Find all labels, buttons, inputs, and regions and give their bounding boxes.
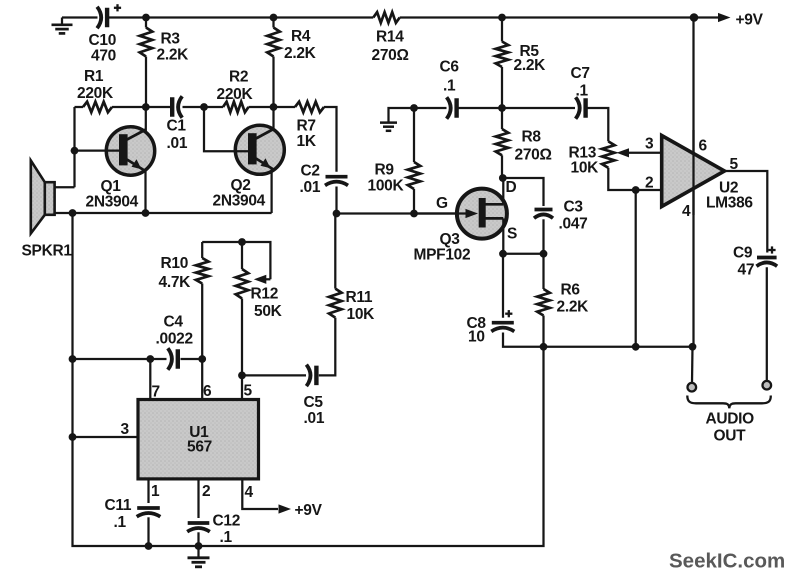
- label R6 2.2K: [557, 282, 590, 316]
- capacitor C2: [325, 177, 348, 186]
- wire U2 pin6/pin4 crossing segment: [692, 130, 694, 215]
- node drain junction D: [499, 174, 507, 182]
- resistor R11: [329, 289, 342, 318]
- node mid rail riser junction: [540, 343, 548, 351]
- node Q2 collector junction: [270, 103, 278, 111]
- label pin 5b: [244, 383, 253, 400]
- svg-text:C1: C1: [167, 118, 187, 135]
- svg-text:R9: R9: [375, 162, 395, 179]
- watermark SeekIC.com: [669, 550, 785, 573]
- label D: [506, 179, 517, 196]
- svg-text:2N3904: 2N3904: [213, 193, 266, 210]
- label R8 270ohm: [515, 129, 552, 164]
- speaker SPKR1: [31, 161, 55, 234]
- svg-text:S: S: [507, 226, 517, 243]
- label C5 .01: [304, 394, 325, 427]
- svg-text:+9V: +9V: [295, 502, 323, 519]
- label Q2 2N3904: [213, 177, 266, 210]
- capacitor C5: [306, 365, 316, 387]
- svg-text:220K: 220K: [77, 85, 114, 102]
- transistor Q2: [235, 125, 284, 174]
- wire R9 top lead: [413, 108, 415, 162]
- wire C9 bottom lead: [766, 267, 768, 381]
- wire C6 left lead: [414, 107, 447, 109]
- wire C5 left lead: [242, 374, 306, 376]
- svg-text:.1: .1: [576, 83, 589, 100]
- node pin2 drop junction: [632, 343, 640, 351]
- wire C4 right segment: [181, 358, 203, 360]
- svg-text:.0022: .0022: [156, 331, 193, 348]
- wire emitter rail / speaker bottom: [55, 212, 272, 214]
- label SPKR1: [22, 243, 73, 260]
- wire pin6 stub: [201, 359, 203, 400]
- svg-text:C7: C7: [571, 65, 590, 82]
- label R13 10K: [569, 145, 600, 177]
- transistor Q3: [457, 189, 507, 239]
- label C8 10: [467, 315, 487, 346]
- node R12 top junction: [238, 238, 246, 246]
- wire R4 bottom lead to Q2 collector node: [272, 57, 274, 108]
- svg-text:3: 3: [121, 421, 130, 438]
- svg-text:OUT: OUT: [714, 428, 747, 445]
- capacitor C12: [187, 523, 210, 532]
- label pin 3: [645, 136, 654, 153]
- label C12 .1: [213, 513, 241, 547]
- wire U2 output: [725, 171, 768, 253]
- wire ground return left/bottom/riser: [73, 213, 544, 546]
- svg-text:R6: R6: [561, 282, 581, 299]
- svg-text:C2: C2: [301, 163, 320, 180]
- svg-text:C12: C12: [213, 513, 241, 530]
- node C3 bottom junction: [540, 250, 548, 258]
- node pin6 line bottom junction: [689, 343, 697, 351]
- power +9V arrow bottom: [279, 504, 292, 513]
- transistor Q1: [106, 127, 154, 175]
- svg-text:10K: 10K: [571, 160, 600, 177]
- svg-text:Q3: Q3: [440, 231, 461, 248]
- svg-text:C9: C9: [733, 245, 753, 262]
- wire R6 bottom lead: [542, 316, 544, 347]
- svg-text:50K: 50K: [254, 303, 283, 320]
- wire C7 right corner down to R13: [588, 108, 609, 141]
- resistor R1: [83, 102, 112, 113]
- label C1 .01: [167, 118, 188, 153]
- resistor R2: [223, 102, 249, 113]
- svg-text:10K: 10K: [347, 306, 376, 323]
- svg-text:270Ω: 270Ω: [372, 47, 409, 64]
- node Q1 emitter junction: [142, 209, 150, 217]
- wire R6 top lead: [542, 254, 544, 289]
- svg-text:1K: 1K: [297, 133, 317, 150]
- wire R11 bottom corner to C5: [319, 318, 336, 376]
- svg-text:6: 6: [699, 138, 708, 155]
- node pin3 junction: [69, 433, 77, 441]
- svg-text:+9V: +9V: [736, 12, 764, 29]
- wire Q1 base: [75, 149, 123, 151]
- svg-text:1: 1: [151, 483, 160, 500]
- svg-text:567: 567: [187, 439, 212, 456]
- wire Q3 source lead: [502, 218, 504, 253]
- label C2 .01: [300, 163, 321, 197]
- resistor R10: [196, 258, 209, 284]
- wire R3 bottom lead to Q1 collector node: [145, 57, 147, 108]
- node pin6 junction: [198, 355, 206, 363]
- svg-text:2: 2: [645, 175, 653, 192]
- capacitor C6: [447, 97, 457, 119]
- resistor R5: [496, 42, 509, 68]
- label pin 2b: [202, 483, 210, 500]
- svg-text:R1: R1: [84, 68, 104, 85]
- svg-text:.01: .01: [304, 410, 325, 427]
- label C10 470: [89, 32, 117, 65]
- label Q1 2N3904: [86, 178, 139, 211]
- node source junction: [499, 250, 507, 258]
- terminal audio out left: [688, 383, 697, 392]
- svg-text:.047: .047: [559, 216, 588, 233]
- wire C8 bottom corner to mid rail: [503, 333, 544, 347]
- brace audio out: [687, 396, 771, 409]
- svg-text:4.7K: 4.7K: [159, 274, 192, 291]
- svg-text:7: 7: [152, 384, 160, 401]
- resistor R12: [236, 269, 249, 299]
- label R9 100K: [368, 162, 405, 195]
- svg-text:C11: C11: [105, 497, 132, 514]
- label R14 270ohm: [372, 29, 409, 65]
- svg-text:C3: C3: [564, 199, 584, 216]
- wire pin5 stub: [241, 375, 243, 399]
- svg-text:G: G: [436, 195, 448, 212]
- svg-text:6: 6: [203, 383, 212, 400]
- wire top rail middle segment: [108, 16, 374, 18]
- resistor R3: [140, 28, 153, 57]
- wire left vertical R1/base: [73, 107, 75, 187]
- wire R3 top lead: [145, 18, 147, 28]
- wire top +9V rail left segment: [62, 16, 98, 18]
- wire R7 right corner down to C2: [324, 107, 337, 172]
- svg-text:4: 4: [682, 203, 691, 220]
- label C6 .1: [440, 59, 460, 95]
- ground symbol top-left: [52, 18, 73, 34]
- node pin7 junction: [146, 355, 154, 363]
- wire Q3 drain lead: [502, 178, 504, 204]
- label +9V bottom: [295, 502, 323, 519]
- svg-text:.1: .1: [220, 529, 233, 546]
- capacitor C7: [576, 97, 586, 119]
- capacitor C8: [491, 310, 514, 331]
- wire Q1 emitter lead: [144, 170, 146, 213]
- wire R10 top lead: [201, 242, 203, 258]
- resistor R8: [496, 129, 509, 155]
- svg-text:SeekIC.com: SeekIC.com: [669, 550, 785, 573]
- wire drain to C3 corner: [503, 178, 544, 206]
- capacitor C3: [534, 210, 553, 219]
- node R3 top junction: [142, 14, 150, 22]
- svg-text:Q1: Q1: [101, 178, 122, 195]
- resistor R6: [537, 289, 550, 316]
- wire Q2 emitter lead corner: [270, 169, 272, 213]
- node C6 left junction: [410, 104, 418, 112]
- wire R1 left lead corner: [75, 106, 84, 108]
- label pin 3b: [121, 421, 130, 438]
- svg-text:C5: C5: [304, 394, 324, 411]
- wire R8 top lead: [501, 108, 503, 129]
- svg-text:Q2: Q2: [231, 177, 251, 194]
- node pin2 junction: [632, 186, 640, 194]
- svg-text:4: 4: [245, 484, 254, 501]
- resistor R14: [373, 12, 399, 23]
- wire C8 top lead: [502, 254, 504, 318]
- node R5 top junction: [498, 14, 506, 22]
- wire C12 bottom lead: [197, 532, 199, 546]
- wire R13 wiper to pin3: [617, 148, 662, 157]
- wire C7 left lead: [502, 107, 575, 109]
- label C4 .0022: [156, 314, 193, 348]
- ground symbol bottom: [188, 546, 210, 567]
- svg-text:R11: R11: [346, 289, 373, 306]
- power +9V arrow top: [694, 13, 731, 22]
- capacitor C9: [757, 246, 778, 266]
- svg-text:2N3904: 2N3904: [86, 194, 139, 211]
- label S: [507, 226, 517, 243]
- svg-text:.01: .01: [167, 135, 188, 152]
- node Q1 base tap: [71, 147, 79, 155]
- wire C6 right lead: [459, 107, 503, 109]
- label C3 .047: [559, 199, 588, 233]
- label +9V top: [736, 12, 764, 29]
- label R2 220K: [217, 69, 254, 104]
- node speaker bottom junction: [69, 209, 77, 217]
- label C9 47: [733, 245, 754, 279]
- wire top rail right segment: [400, 16, 694, 18]
- label Q3 MPF102: [414, 231, 471, 264]
- node C2 bottom junction: [333, 210, 341, 218]
- svg-text:R8: R8: [522, 129, 542, 146]
- wire source to C3/R6 node: [503, 253, 544, 255]
- svg-text:AUDIO: AUDIO: [706, 411, 755, 428]
- svg-text:SPKR1: SPKR1: [22, 243, 73, 260]
- node Q2 base junction: [200, 103, 208, 111]
- op-amp U2: [662, 136, 725, 207]
- wire Q2 base drop: [204, 107, 250, 151]
- label pin 2: [645, 175, 653, 192]
- svg-text:R3: R3: [161, 31, 181, 48]
- svg-text:R7: R7: [297, 118, 316, 135]
- wire left terminal drop: [691, 347, 694, 383]
- svg-text:.1: .1: [443, 78, 456, 95]
- wire pin4 lead: [242, 479, 278, 509]
- svg-text:R4: R4: [291, 28, 311, 45]
- label G: [436, 195, 448, 212]
- label R4 2.2K: [284, 28, 317, 62]
- node C12 bottom junction: [195, 542, 203, 550]
- node +9V rail / pin6 junction: [690, 13, 699, 22]
- wire C4 left segment: [73, 358, 167, 360]
- wire R5 bottom lead: [501, 67, 503, 108]
- capacitor C10: [97, 4, 121, 28]
- svg-text:C10: C10: [89, 32, 117, 49]
- svg-text:270Ω: 270Ω: [515, 147, 552, 164]
- svg-text:47: 47: [738, 262, 755, 279]
- svg-text:R12: R12: [251, 286, 279, 303]
- label R10 4.7K: [159, 255, 192, 291]
- wire pin3 lead: [73, 436, 139, 438]
- wire pin1 lead: [147, 479, 149, 503]
- wire C1 right to R2: [183, 106, 224, 108]
- wire R9 bottom lead: [413, 189, 415, 214]
- ground symbol middle: [380, 108, 414, 131]
- node R4 top junction: [270, 14, 278, 22]
- capacitor C1: [172, 96, 182, 118]
- svg-text:C4: C4: [164, 314, 184, 331]
- wire R10/R12 top link: [202, 242, 270, 279]
- wire pin2 vertical drop: [635, 190, 637, 347]
- svg-text:MPF102: MPF102: [414, 247, 471, 264]
- wire R1 right to C1: [112, 106, 171, 108]
- svg-text:10: 10: [468, 329, 485, 346]
- wire R4 top lead: [272, 18, 274, 28]
- svg-text:2.2K: 2.2K: [284, 45, 317, 62]
- svg-text:.01: .01: [300, 179, 321, 196]
- wire C3 bottom lead: [542, 219, 544, 253]
- label C7 .1: [571, 65, 590, 100]
- svg-text:C6: C6: [440, 59, 460, 76]
- label R7 1K: [297, 118, 317, 151]
- terminal audio out right: [763, 381, 772, 390]
- label U1 567: [187, 424, 212, 456]
- resistor R9: [408, 162, 421, 189]
- label pin 6b: [203, 383, 212, 400]
- wire R12 bottom lead to pin5: [241, 299, 243, 376]
- label pin 4b: [245, 484, 254, 501]
- wire pin2 lead: [197, 479, 199, 518]
- label pin 5: [730, 156, 739, 173]
- wire C11 bottom lead: [147, 517, 149, 546]
- resistor R7: [295, 102, 324, 113]
- label R12 50K: [251, 286, 283, 321]
- capacitor C4: [168, 348, 178, 370]
- svg-text:.1: .1: [114, 514, 127, 531]
- wire Q3 gate with arrow: [414, 209, 478, 218]
- label pin 1: [151, 483, 160, 500]
- wire R13 bottom corner to pin2: [608, 168, 661, 190]
- node R5/R8 junction: [498, 104, 506, 112]
- label pin 7: [152, 384, 160, 401]
- wire R5 top lead: [501, 18, 503, 42]
- label C11 .1: [105, 497, 132, 531]
- svg-text:LM386: LM386: [706, 195, 753, 212]
- svg-text:2.2K: 2.2K: [157, 47, 190, 64]
- svg-text:2: 2: [202, 483, 210, 500]
- svg-text:R10: R10: [161, 255, 189, 272]
- wire gate line: [337, 212, 467, 214]
- svg-text:470: 470: [91, 48, 116, 65]
- svg-text:220K: 220K: [217, 86, 254, 103]
- capacitor C11: [137, 508, 161, 517]
- label R11 10K: [346, 289, 376, 323]
- resistor R4: [267, 28, 280, 57]
- label R1 220K: [77, 68, 114, 102]
- wire R2 right to R7: [249, 106, 296, 108]
- wire R12 wiper arrow: [254, 275, 271, 284]
- wire Q1 collector lead: [145, 107, 147, 131]
- wire Q2 collector lead: [272, 107, 274, 130]
- wire mid rail: [544, 346, 693, 348]
- svg-text:2.2K: 2.2K: [557, 299, 590, 316]
- svg-text:100K: 100K: [368, 178, 405, 195]
- node Q1 collector junction: [142, 103, 150, 111]
- wire U2 pin6/pin4 vertical line: [692, 18, 694, 347]
- wire R12 top stub: [241, 242, 243, 269]
- label AUDIO OUT: [706, 411, 755, 445]
- resistor R13: [602, 141, 615, 167]
- label R3 2.2K: [157, 31, 190, 64]
- IC U1 567: [138, 400, 259, 479]
- svg-text:2.2K: 2.2K: [514, 57, 547, 74]
- wire pin7 stub: [149, 359, 151, 400]
- svg-text:R2: R2: [229, 69, 248, 86]
- wire R8 bottom lead: [501, 155, 503, 178]
- wire R11 top lead: [334, 214, 336, 289]
- svg-text:R14: R14: [376, 29, 404, 46]
- svg-text:3: 3: [645, 136, 654, 153]
- label U2 LM386: [706, 180, 753, 212]
- node pin5 junction: [238, 372, 246, 380]
- label pin 4: [682, 203, 691, 220]
- wire R10 bottom lead: [201, 284, 203, 360]
- label pin 6: [699, 138, 708, 155]
- node R9 bottom junction: [410, 210, 418, 218]
- node C11 bottom junction: [145, 542, 153, 550]
- svg-text:D: D: [506, 179, 517, 196]
- label R5 2.2K: [514, 43, 547, 74]
- wire C2 bottom lead: [335, 187, 337, 214]
- wire speaker top terminal: [55, 186, 75, 188]
- svg-text:5: 5: [244, 383, 253, 400]
- node left line C4 junction: [69, 355, 77, 363]
